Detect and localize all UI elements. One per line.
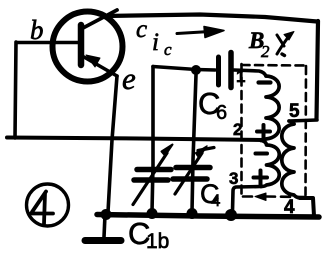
wire tap5 hook [289,121,294,124]
wire tap4 to bottom right corner [300,198,314,216]
dashed shield box left edge [240,64,243,195]
inductor L2 secondary winding arcs [282,124,300,198]
svg-text:c: c [136,16,147,43]
svg-text:b: b [30,15,44,45]
wire right edge down to tap5 [317,21,319,119]
wire V2 vertical [192,75,196,212]
svg-text:3: 3 [229,169,238,188]
transistor emitter lead [84,57,117,76]
node junction dot CB [191,65,201,75]
node dot V1-bottom [147,208,158,219]
figure digit 4 [31,192,53,225]
svg-text:1b: 1b [146,230,169,253]
ground stem [104,215,105,237]
capacitor CB plates [216,57,221,85]
svg-text:6: 6 [216,102,227,124]
transistor collector lead [83,10,117,28]
node dot emitter-bottom [101,209,112,220]
wire top collector to right corner [105,15,317,22]
svg-text:2: 2 [261,42,270,61]
svg-text:5: 5 [289,101,300,122]
wire CB to tap1 [234,70,266,76]
ground bar [85,237,121,244]
current arrow iC [177,32,210,34]
node dot V2-bottom [187,208,198,219]
wire W1 corner to CB [153,67,215,71]
polarity plus 1 [257,125,270,138]
polarity minus 2 [256,152,268,156]
wire emitter vertical [108,76,117,212]
svg-text:c: c [164,40,172,59]
transistor Q1 circle [53,12,123,82]
variable capacitor C4 plates [176,165,210,171]
dashed shield box right edge [304,66,307,195]
node dot tap3-bottom [225,209,237,221]
inductor L1 primary winding arcs [261,76,279,141]
wire bottom ground bus [97,215,319,218]
wire W2 base feedback to tap2 [7,138,263,141]
polarity minus 1 [259,80,271,84]
svg-text:e: e [122,61,136,96]
transistor base bar [78,25,85,65]
svg-text:4: 4 [284,197,295,218]
wire base lead [17,41,78,45]
svg-text:4: 4 [211,191,220,210]
svg-text:2: 2 [233,120,242,139]
emitter arrowhead [86,55,100,67]
wire left vertical [15,42,16,138]
svg-text:i: i [152,29,159,56]
wire tap5 horizontal [289,120,317,121]
polarity plus 2 [254,171,268,185]
svg-text:1: 1 [236,67,245,86]
dashed shield box top edge [242,64,308,67]
output label arrow (Vykh x-glyph) [277,36,289,54]
variable capacitor C4 arrow [175,153,202,194]
variable capacitor C1b arrow [133,153,167,205]
wire tap3 to bottom [233,187,262,212]
figure number circle [27,184,69,226]
wire V1 vertical [152,67,153,213]
dashed shield box bottom edge with arrow [266,195,305,198]
variable capacitor C1b plates [137,167,171,173]
